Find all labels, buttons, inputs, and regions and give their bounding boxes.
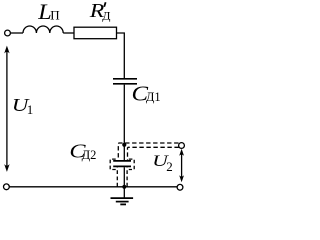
svg-text:1: 1 bbox=[27, 102, 34, 117]
dashed shield: left lead below C_D2 bbox=[116, 168, 118, 187]
ground bar 2 bbox=[116, 201, 129, 203]
wire top-left bbox=[11, 32, 23, 34]
capacitor C_D2 top plate bbox=[113, 160, 131, 162]
wire junction to C_D2 bbox=[123, 145, 125, 160]
dashed bracket right of C_D2 bbox=[129, 159, 134, 169]
ground bar 3 bbox=[120, 203, 126, 205]
terminal bottom-left bbox=[4, 184, 10, 190]
bottom rail wire bbox=[9, 186, 177, 188]
junction dot at rail bbox=[122, 185, 126, 189]
terminal bottom-right bbox=[177, 184, 183, 190]
wire C_D1 to junction bbox=[123, 85, 125, 145]
dashed shield: right lead below C_D2 bbox=[126, 168, 128, 187]
wire C_D2 to ground bbox=[123, 167, 125, 198]
capacitor C_D2 bottom plate bbox=[113, 165, 131, 167]
junction dot at C_D2 top bbox=[122, 143, 126, 147]
terminal top-right (output) bbox=[179, 143, 185, 149]
inductor L_P bbox=[23, 26, 63, 33]
capacitor C_D1 top plate bbox=[113, 78, 137, 80]
svg-text:Д: Д bbox=[102, 8, 110, 22]
ground bar 1 bbox=[111, 197, 134, 199]
voltage arrow U1 (double-headed) bbox=[4, 46, 9, 172]
svg-text:Д2: Д2 bbox=[82, 148, 97, 162]
svg-text:П: П bbox=[50, 8, 59, 23]
capacitor C_D1 bottom plate bbox=[113, 83, 137, 85]
wire bbox=[63, 32, 74, 34]
resistor R'_D bbox=[74, 27, 117, 39]
terminal input top-left bbox=[5, 30, 11, 36]
voltage arrow U2 (double-headed) bbox=[179, 149, 184, 182]
wire resistor to corner, down to C_D1 bbox=[117, 33, 125, 78]
dashed bracket left of C_D2 bbox=[110, 159, 116, 169]
svg-text:2: 2 bbox=[166, 159, 173, 174]
dashed shield: upper line to output terminal bbox=[118, 143, 178, 160]
dashed shield: lower line to output terminal bbox=[128, 147, 179, 160]
svg-text:Д1: Д1 bbox=[146, 90, 161, 104]
